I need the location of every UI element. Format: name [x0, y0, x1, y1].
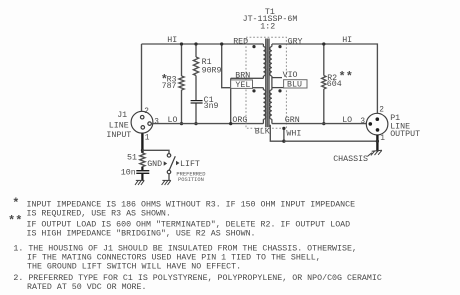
- svg-text:IF OUTPUT LOAD IS 600 OHM "TER: IF OUTPUT LOAD IS 600 OHM "TERMINATED", …: [27, 219, 351, 229]
- wire RED lead: [262, 44, 264, 47]
- arrow GND: [164, 161, 168, 166]
- T1 secondary winding upper (GRY-VIO): [271, 44, 273, 47]
- wire VIO stub: [272, 77, 282, 79]
- svg-text:2: 2: [144, 108, 149, 116]
- svg-text:3: 3: [360, 118, 365, 126]
- svg-text:INPUT IMPEDANCE IS 186 OHMS WI: INPUT IMPEDANCE IS 186 OHMS WITHOUT R3. …: [27, 200, 356, 209]
- node BLU boxed label: [284, 80, 307, 88]
- T1 secondary winding lower (BLU-GRN): [270, 90, 272, 119]
- wire HI rail left: [142, 43, 264, 45]
- svg-text:2: 2: [379, 106, 384, 114]
- connector P1: [366, 113, 388, 135]
- ground (below 10n cap): [135, 180, 144, 185]
- transformer core: [265, 39, 267, 128]
- svg-text:GND: GND: [147, 160, 162, 169]
- svg-text:BLK: BLK: [255, 127, 270, 136]
- svg-text:GRY: GRY: [288, 37, 303, 46]
- wire HI rail right (GRY): [272, 44, 378, 113]
- wire BRN: [231, 77, 264, 79]
- svg-text:CHASSIS: CHASSIS: [333, 155, 368, 164]
- ground chassis (P1): [367, 150, 382, 156]
- svg-text:10n: 10n: [121, 169, 136, 178]
- svg-text:YEL: YEL: [235, 81, 250, 90]
- wire J1 pin1 drop: [141, 133, 143, 153]
- wire tee to switch: [142, 150, 169, 153]
- wire LO rail right (GRN): [272, 123, 366, 125]
- svg-text:OUTPUT: OUTPUT: [390, 130, 420, 139]
- wire WHI case tap: [283, 128, 285, 141]
- node YEL boxed label: [231, 80, 253, 89]
- svg-text:ORG: ORG: [232, 116, 247, 125]
- wire BLK/WHI to chassis: [284, 140, 378, 142]
- resistor R2: [323, 44, 325, 76]
- svg-text:2. PREFERRED TYPE FOR C1 IS PO: 2. PREFERRED TYPE FOR C1 IS POLYSTYRENE,…: [13, 273, 381, 283]
- polarity dot primary upper: [252, 45, 255, 48]
- svg-text:LO: LO: [342, 116, 352, 125]
- svg-text:IF THE MATING CONNECTORS USED: IF THE MATING CONNECTORS USED HAVE PIN 1…: [27, 253, 321, 262]
- svg-text:LIFT: LIFT: [180, 160, 200, 169]
- resistor 51 ohm: [140, 153, 145, 167]
- wire J1 pin2 riser: [141, 44, 143, 111]
- svg-text:1: 1: [380, 135, 385, 143]
- svg-text:WHI: WHI: [286, 129, 301, 138]
- svg-text:RATED AT 50 VDC OR MORE.: RATED AT 50 VDC OR MORE.: [27, 283, 147, 292]
- wire BRN to LO rail: [230, 78, 232, 123]
- wire LO rail left: [151, 123, 263, 125]
- wire YEL inside-box continuation: [253, 87, 264, 89]
- svg-text:*: *: [12, 197, 19, 211]
- svg-text:IS REQUIRED, USE R3 AS SHOWN.: IS REQUIRED, USE R3 AS SHOWN.: [27, 210, 171, 219]
- svg-text:BRN: BRN: [235, 72, 250, 81]
- svg-text:1:2: 1:2: [260, 22, 275, 31]
- svg-text:787: 787: [162, 82, 177, 91]
- svg-text:IS HIGH IMPEDANCE "BRIDGING",: IS HIGH IMPEDANCE "BRIDGING", USE R2 AS …: [27, 228, 256, 238]
- polarity dot secondary upper: [278, 45, 281, 48]
- wire HI to YEL tap: [222, 44, 246, 88]
- svg-text:INPUT: INPUT: [106, 131, 131, 140]
- svg-text:HI: HI: [167, 36, 177, 45]
- svg-text:LINE: LINE: [109, 121, 129, 130]
- polarity dot secondary lower: [278, 89, 281, 92]
- svg-text:POSITION: POSITION: [178, 177, 204, 183]
- connector J1: [131, 111, 153, 133]
- svg-text:3n9: 3n9: [204, 102, 219, 111]
- T1 primary winding upper (RED-BRN): [263, 47, 265, 77]
- wire switch to ground: [168, 174, 170, 181]
- capacitor C1: [191, 100, 203, 102]
- wire BLU stub: [272, 87, 284, 89]
- svg-text:LO: LO: [168, 116, 178, 125]
- wire BLK shield tap: [270, 125, 284, 141]
- svg-text:RED: RED: [233, 37, 248, 46]
- resistor R1: [195, 44, 197, 57]
- capacitor 10n: [136, 170, 149, 172]
- switch S1: [167, 154, 171, 158]
- svg-text:BLU: BLU: [287, 80, 302, 89]
- arrow LIFT: [176, 161, 180, 166]
- svg-text:**: **: [339, 70, 353, 84]
- svg-text:1: 1: [145, 135, 150, 143]
- svg-text:J1: J1: [117, 111, 127, 120]
- resistor R3: [181, 44, 183, 76]
- svg-text:90R9: 90R9: [202, 66, 222, 75]
- svg-text:VIO: VIO: [283, 71, 298, 80]
- switch blade: [169, 156, 175, 170]
- svg-text:HI: HI: [342, 36, 352, 45]
- svg-text:THE GROUND LIFT SWITCH WILL HA: THE GROUND LIFT SWITCH WILL HAVE NO EFFE…: [27, 262, 241, 271]
- svg-text:**: **: [8, 214, 22, 228]
- T1 primary winding lower (YEL-ORG): [262, 88, 264, 90]
- ground (below switch): [162, 180, 171, 185]
- polarity dot primary lower: [252, 89, 255, 92]
- transformer T1 shield box: [246, 37, 286, 128]
- svg-text:1. THE HOUSING OF J1 SHOULD BE: 1. THE HOUSING OF J1 SHOULD BE INSULATED…: [13, 244, 357, 253]
- wire P1 pin1 to chassis: [376, 135, 378, 152]
- svg-text:51: 51: [127, 154, 137, 163]
- svg-text:3: 3: [154, 118, 159, 126]
